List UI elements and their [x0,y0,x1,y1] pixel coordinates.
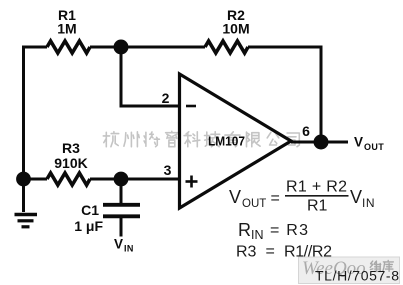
svg-text:OUT: OUT [242,198,266,210]
svg-text:R3: R3 [62,140,80,156]
svg-text:R3: R3 [236,244,257,261]
svg-text:6: 6 [302,123,310,139]
svg-text:IN: IN [124,244,134,254]
wire [120,217,123,237]
formula RIN equation [238,220,308,242]
node VIN terminal [114,237,134,254]
svg-text:=: = [266,243,275,260]
svg-text:10M: 10M [222,21,249,37]
svg-text:3: 3 [164,162,172,178]
resistor R2 [205,7,250,53]
wire [24,178,48,181]
svg-text:R1: R1 [307,198,328,215]
svg-text:R: R [238,220,251,240]
resistor R1 [47,7,90,53]
svg-text:910K: 910K [54,155,87,171]
wire [90,178,180,181]
formula R3 equation [236,243,332,261]
svg-text:V: V [114,237,123,252]
pin 3 [164,162,172,178]
formula VOUT equation [229,179,375,215]
svg-text:V: V [350,187,362,207]
node output junction [314,135,329,150]
svg-text:IN: IN [251,228,264,242]
pin 6 [302,123,310,139]
svg-text:1M: 1M [57,21,76,37]
wire [22,179,25,212]
svg-text:TL/H/7057-8: TL/H/7057-8 [315,268,399,284]
wire [121,47,180,106]
svg-text:=: = [271,190,280,207]
node left junction [16,172,31,187]
label TL/H/7057-8 [315,268,399,284]
wire [120,179,123,203]
svg-text:C1: C1 [81,202,99,218]
node bottom junction [114,172,129,187]
watermark hanzi company name [103,131,299,146]
svg-text:V: V [229,187,241,207]
svg-text:2: 2 [162,90,170,106]
wire [90,46,205,49]
node top junction [114,40,129,55]
resistor R3 [47,140,90,185]
watermark WeeQoo box [299,257,400,284]
pin 2 [162,90,170,106]
svg-text:IN: IN [362,196,375,210]
svg-text:OUT: OUT [364,142,384,152]
svg-text:R1 + R2: R1 + R2 [286,179,347,196]
wire [291,141,348,144]
ground [15,215,38,227]
wire [24,47,48,179]
svg-text:1 μF: 1 μF [74,218,103,234]
wire [248,47,321,142]
capacitor C1 [74,202,140,234]
svg-text:= R3: = R3 [270,222,308,239]
svg-text:V: V [354,135,363,150]
node VOUT terminal [354,135,384,153]
op-amp U1 LM107 [180,74,292,208]
